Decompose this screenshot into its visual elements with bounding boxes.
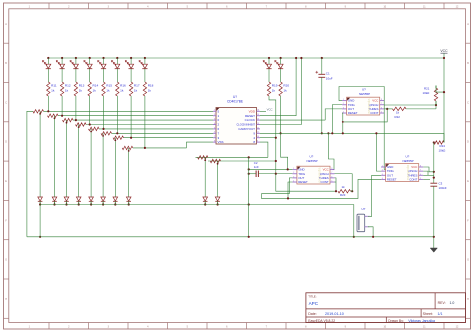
- wire U4 DISCH jog: [423, 171, 428, 175]
- junction wrap-col8: [144, 147, 146, 149]
- wire row3 to U1 pin3: [73, 119, 213, 121]
- junction diode bus right: [353, 236, 355, 238]
- svg-text:CLOCK: CLOCK: [245, 118, 255, 122]
- capacitor C1 10uF: [316, 71, 333, 80]
- diode D19: [203, 197, 208, 206]
- wire row5 to U1 pin5: [99, 128, 213, 130]
- junction U2 RESET rail: [342, 132, 344, 134]
- junction bottom left col: [39, 236, 41, 238]
- junction C2 bottom bus: [248, 236, 250, 238]
- junction drop 3: [66, 122, 68, 124]
- wire column 1 to row: [47, 96, 49, 111]
- wire column 4 to row: [89, 96, 91, 125]
- capacitor C2 1nF: [249, 161, 293, 177]
- resistor R4 row4: [76, 123, 87, 126]
- diode D12: [52, 197, 57, 206]
- wire column 6 to row: [116, 96, 118, 133]
- wire U1 pin8R to rowA: [260, 142, 268, 157]
- wire bottom bus: [27, 236, 434, 238]
- wire column 7 to row: [130, 96, 132, 138]
- wire drop to diode 6: [102, 133, 104, 197]
- LED D10: [275, 58, 283, 82]
- junction C1-rail: [321, 132, 323, 134]
- svg-text:CLOCK/INHIBIT: CLOCK/INHIBIT: [236, 123, 255, 127]
- resistor R7 row7: [113, 136, 124, 139]
- svg-text:C3: C3: [439, 182, 443, 186]
- junction R20 rail: [280, 132, 282, 134]
- junction row7-col: [130, 137, 132, 139]
- timer U2 NE555P: [342, 88, 384, 116]
- svg-text:H: H: [5, 298, 7, 301]
- diode D16: [101, 197, 106, 206]
- wire U3 VCC from rail: [328, 133, 334, 169]
- wire U4 OUT to U5: [368, 175, 381, 216]
- junction drop 8: [128, 150, 130, 152]
- resistor R18 1k: [143, 82, 153, 96]
- svg-text:1k: 1k: [51, 89, 55, 93]
- wire U4 THRES: [423, 174, 434, 176]
- resistor R20 1k: [279, 82, 289, 96]
- svg-text:R12: R12: [65, 84, 71, 88]
- wire C2 left net: [248, 157, 250, 236]
- wire drop to diode 1: [39, 111, 41, 197]
- svg-text:easyeda: easyeda: [405, 164, 410, 180]
- junction drop 7: [114, 139, 116, 141]
- svg-text:NE555P: NE555P: [403, 159, 414, 163]
- svg-text:VDD: VDD: [249, 109, 256, 113]
- svg-text:RESET: RESET: [387, 178, 397, 182]
- junction right v 177.6: [433, 177, 435, 179]
- svg-text:1k: 1k: [148, 89, 152, 93]
- junction drop rowA: [204, 159, 206, 161]
- junction R23 left: [335, 190, 337, 192]
- svg-text:G: G: [467, 259, 469, 262]
- resistor R15 1k: [102, 82, 112, 96]
- svg-text:1k: 1k: [272, 89, 276, 93]
- svg-text:C: C: [467, 101, 469, 104]
- resistor R9 rowA: [198, 156, 208, 159]
- wire C3 bottom: [433, 186, 435, 237]
- svg-text:NE555P: NE555P: [359, 92, 370, 96]
- svg-text:10kΩ: 10kΩ: [423, 91, 431, 95]
- svg-text:VCC: VCC: [440, 49, 448, 53]
- svg-text:RESET: RESET: [348, 111, 358, 115]
- U1 label: [227, 95, 243, 103]
- wire rowA: [196, 156, 268, 158]
- buzzer U5: [357, 207, 370, 232]
- LED D7: [125, 58, 133, 82]
- LED D4: [84, 58, 92, 82]
- wire row7 to U1 pin7: [124, 137, 214, 139]
- wire U1 pin7R to R19net: [260, 137, 276, 139]
- svg-text:10uF: 10uF: [326, 76, 333, 80]
- wire U1 INHIBIT up to bus: [260, 58, 301, 125]
- diode D15: [89, 197, 94, 206]
- junction C2 left: [248, 173, 250, 175]
- junction bus INHIBIT: [300, 57, 302, 59]
- wire row2 to U1 pin2: [58, 115, 213, 117]
- junction U4 TRIG rail: [375, 132, 377, 134]
- LED D2: [56, 58, 64, 82]
- resistor R10 rowB: [210, 159, 220, 162]
- resistor R1 row1: [33, 110, 44, 113]
- diode D17: [113, 197, 118, 206]
- diode D20: [215, 197, 220, 206]
- resistor R3 row3: [63, 118, 74, 121]
- wire R22 right: [406, 108, 436, 110]
- wire R24 left drop: [433, 143, 435, 184]
- wire drop to diode 8: [128, 148, 130, 197]
- wire row1 left end: [27, 111, 33, 237]
- resistor R2 row2: [48, 114, 59, 117]
- wire drop rowA: [204, 157, 206, 197]
- wire diode bus: [40, 204, 354, 206]
- wire drop to diode 7: [114, 138, 116, 197]
- svg-text:Sheet:: Sheet:: [423, 312, 433, 316]
- svg-text:CONT: CONT: [320, 180, 328, 184]
- diode D13: [64, 197, 69, 206]
- svg-text:1k: 1k: [283, 89, 287, 93]
- svg-text:10kΩ: 10kΩ: [439, 149, 447, 153]
- resistor R21 10kΩ: [423, 86, 438, 106]
- wire U2 THRES lead: [384, 108, 392, 110]
- wire row4 to U1 pin4: [86, 124, 213, 126]
- junction R23 right: [351, 190, 353, 192]
- junction bus-LED 6: [116, 57, 118, 59]
- junction bus-LED 10: [280, 57, 282, 59]
- junction R21 bottom: [435, 104, 437, 106]
- wire U2 THRES branch: [343, 109, 387, 122]
- junction row198 reset: [287, 197, 289, 199]
- timer U3 NE555P: [292, 155, 334, 185]
- svg-text:CD4017BE: CD4017BE: [227, 100, 243, 104]
- svg-text:R11: R11: [51, 84, 57, 88]
- svg-text:CARRYOUT: CARRYOUT: [238, 127, 255, 131]
- junction bus-LED 9: [268, 57, 270, 59]
- junction row6-col: [116, 132, 118, 134]
- junction C2 right: [275, 173, 277, 175]
- svg-text:G: G: [5, 259, 7, 262]
- junction row4-col: [89, 123, 91, 125]
- op-amp U1 CD4017BE ic body: [213, 108, 260, 145]
- svg-text:VSS: VSS: [218, 140, 224, 144]
- svg-text:EasyEDA V5.8.22: EasyEDA V5.8.22: [308, 319, 335, 323]
- power flag VCC top right: [440, 49, 448, 58]
- junction pin7R-R19net: [275, 137, 277, 139]
- wire drop rowB: [217, 161, 219, 197]
- junction bottom bus gnd: [433, 236, 435, 238]
- wire U2 RESET drop: [341, 113, 344, 133]
- junction rowA-C2net: [248, 156, 250, 158]
- junction diode bus C2net: [248, 203, 250, 205]
- resistor R12 1k: [60, 82, 70, 96]
- wire VCC flag drop: [443, 58, 445, 143]
- junction bus-LED 1: [47, 57, 49, 59]
- wire C1 top: [321, 58, 323, 74]
- resistor R14 1k: [88, 82, 98, 96]
- svg-text:easyeda: easyeda: [366, 98, 371, 114]
- svg-text:C1: C1: [326, 72, 330, 76]
- svg-text:R21: R21: [424, 87, 430, 91]
- wire U3 THRES: [335, 178, 337, 191]
- wire R21 bottom link: [435, 105, 437, 109]
- svg-text:APC: APC: [309, 301, 319, 306]
- junction drop 1: [39, 113, 41, 115]
- resistor R23 1k: [338, 185, 351, 197]
- svg-text:RESET: RESET: [245, 114, 255, 118]
- wire U3 OUT route: [262, 178, 382, 199]
- resistor R22 1k: [393, 107, 407, 119]
- junction bus-LED 7: [130, 57, 132, 59]
- svg-text:Date:: Date:: [308, 312, 317, 316]
- junction drop 4: [78, 126, 80, 128]
- wire U4 VCC jog: [423, 167, 434, 172]
- wire column 5 to row: [103, 96, 105, 129]
- svg-text:R13: R13: [79, 84, 85, 88]
- wire row6 to U1 pin6: [112, 132, 214, 134]
- junction rowB-R19net: [275, 160, 277, 162]
- wire U1 CLOCK row: [260, 119, 325, 121]
- svg-text:1k: 1k: [134, 89, 138, 93]
- wire rail corner R24: [443, 133, 445, 142]
- wire U5 pin1 to bus: [368, 227, 373, 237]
- svg-text:1nF: 1nF: [254, 165, 259, 169]
- junction row1-col: [47, 110, 49, 112]
- svg-text:R17: R17: [134, 84, 140, 88]
- wire U3 GND row: [249, 168, 293, 170]
- junction right v 171.8: [433, 171, 435, 173]
- wire row1 to U1 pin1: [44, 110, 214, 112]
- wire left col drop: [39, 205, 41, 237]
- junction VCC drop R21: [443, 91, 445, 93]
- wire diode bus drop right: [353, 205, 355, 237]
- svg-text:R14: R14: [93, 84, 99, 88]
- svg-text:1k: 1k: [79, 89, 83, 93]
- wire rowB: [208, 160, 276, 162]
- svg-text:TITLE:: TITLE:: [308, 294, 317, 298]
- wire drop to diode 4: [78, 125, 80, 198]
- junction row2-col: [61, 115, 63, 117]
- wire U3 CONT stub: [335, 181, 337, 183]
- wire U2 DISCH to R21: [384, 104, 436, 106]
- svg-text:1k: 1k: [120, 89, 124, 93]
- resistor R5 row5: [89, 127, 100, 130]
- diode D14: [76, 197, 81, 206]
- junction U5 pin1 bus: [372, 236, 374, 238]
- LED D8: [139, 58, 147, 82]
- wire wrap row: [187, 142, 214, 148]
- resistor R24 10kΩ: [434, 141, 446, 153]
- junction top bus at VCC drop: [443, 57, 445, 59]
- resistor R11 1k: [47, 82, 57, 96]
- wire U2 GND route: [339, 87, 386, 170]
- LED D1: [43, 58, 51, 82]
- resistor R19 1k: [267, 82, 277, 96]
- junction GND row left: [248, 168, 250, 170]
- svg-text:R15: R15: [106, 84, 112, 88]
- wire drop to diode 3: [66, 120, 68, 197]
- svg-text:H: H: [467, 298, 469, 301]
- svg-text:1k: 1k: [106, 89, 110, 93]
- svg-text:CONT: CONT: [370, 111, 378, 115]
- capacitor C3 100nF: [430, 182, 447, 191]
- svg-text:R16: R16: [120, 84, 126, 88]
- wire R23 right up: [335, 174, 353, 191]
- junction bus-LED 4: [89, 57, 91, 59]
- resistor R13 1k: [74, 82, 84, 96]
- LED D3: [70, 58, 78, 82]
- LED D5: [98, 58, 106, 82]
- svg-text:Drawn By:: Drawn By:: [388, 319, 404, 323]
- svg-text:1k: 1k: [93, 89, 97, 93]
- svg-text:R19: R19: [272, 84, 278, 88]
- junction bus-LED 2: [61, 57, 63, 59]
- svg-text:CONT: CONT: [409, 178, 417, 182]
- wire drop to diode 2: [54, 116, 56, 197]
- wire R19 col down: [269, 96, 276, 174]
- junction drop 2: [54, 117, 56, 119]
- wire U4 CONT stub: [423, 178, 430, 180]
- junction row5-col: [102, 128, 104, 130]
- wire C1 bottom: [321, 77, 323, 133]
- title block: [306, 293, 466, 323]
- resistor R17 1k: [129, 82, 139, 96]
- svg-text:100nF: 100nF: [439, 186, 447, 190]
- wire VCC top bus: [48, 57, 444, 59]
- svg-text:VCC: VCC: [267, 108, 273, 112]
- svg-text:easyeda: easyeda: [317, 167, 322, 183]
- svg-text:2019-01-10: 2019-01-10: [325, 312, 344, 316]
- svg-text:R20: R20: [283, 84, 289, 88]
- resistor R16 1k: [116, 82, 126, 96]
- junction R24 left: [433, 141, 435, 143]
- wire wrap row lower: [133, 147, 187, 149]
- junction U2 THRES lead: [386, 108, 388, 110]
- wire column 2 to row: [61, 96, 63, 116]
- junction drop rowB: [217, 163, 219, 165]
- junction drop 6: [102, 135, 104, 137]
- junction bus-LED 5: [102, 57, 104, 59]
- svg-text:R18: R18: [148, 84, 154, 88]
- LED D9: [263, 58, 271, 82]
- svg-text:R24: R24: [440, 144, 446, 148]
- junction drop 5: [90, 131, 92, 133]
- svg-text:U?: U?: [362, 207, 366, 211]
- svg-text:1.0: 1.0: [450, 301, 455, 305]
- wire column 3 to row: [75, 96, 77, 120]
- wire drop to diode 5: [90, 129, 92, 197]
- wire long rail: [260, 132, 444, 134]
- diode D11: [38, 197, 43, 206]
- wire column 8 to row: [144, 96, 146, 148]
- timer U4 NE555P: [381, 155, 423, 182]
- net label VCC at VDD pin: [260, 108, 273, 112]
- svg-text:NE555P: NE555P: [307, 159, 318, 163]
- resistor R8 wrap row: [122, 146, 133, 149]
- junction GND row jog: [287, 168, 289, 170]
- junction row3-col: [75, 119, 77, 121]
- svg-text:U?: U?: [233, 95, 237, 99]
- resistor R6 row6: [101, 132, 112, 135]
- wire R21 top to VCC drop: [436, 86, 444, 93]
- junction bus-C1: [321, 57, 323, 59]
- wire U4 TRIG up: [376, 133, 381, 171]
- svg-text:1k: 1k: [65, 89, 69, 93]
- ground symbol: [430, 237, 437, 252]
- junction bus-LED 3: [75, 57, 77, 59]
- svg-text:R22: R22: [395, 115, 401, 119]
- junction U2 TRIG rail: [331, 132, 333, 134]
- svg-text:D: D: [5, 141, 7, 144]
- junction U3 VCC rail: [327, 132, 329, 134]
- svg-text:1/1: 1/1: [438, 312, 443, 316]
- wire U1 RESET up to bus: [260, 58, 296, 116]
- wire U3 RESET drop: [288, 182, 292, 198]
- svg-text:RESET: RESET: [298, 180, 308, 184]
- junction THRES-RESET join: [342, 121, 344, 123]
- wire R20 col down: [281, 96, 288, 169]
- svg-text:REV:: REV:: [438, 301, 446, 305]
- junction bus-LED 8: [144, 57, 146, 59]
- svg-text:Viktoras Januška: Viktoras Januška: [408, 319, 435, 323]
- svg-text:R23: R23: [340, 193, 346, 197]
- svg-text:D: D: [467, 141, 469, 144]
- wire U2 OUT to CLOCK: [325, 109, 342, 120]
- diode D18: [126, 197, 131, 206]
- svg-text:C: C: [5, 101, 7, 104]
- junction bus RESET: [295, 57, 297, 59]
- wire U2 TRIG drop: [332, 105, 342, 134]
- wire C2R to R23: [276, 174, 336, 191]
- LED D6: [112, 58, 120, 82]
